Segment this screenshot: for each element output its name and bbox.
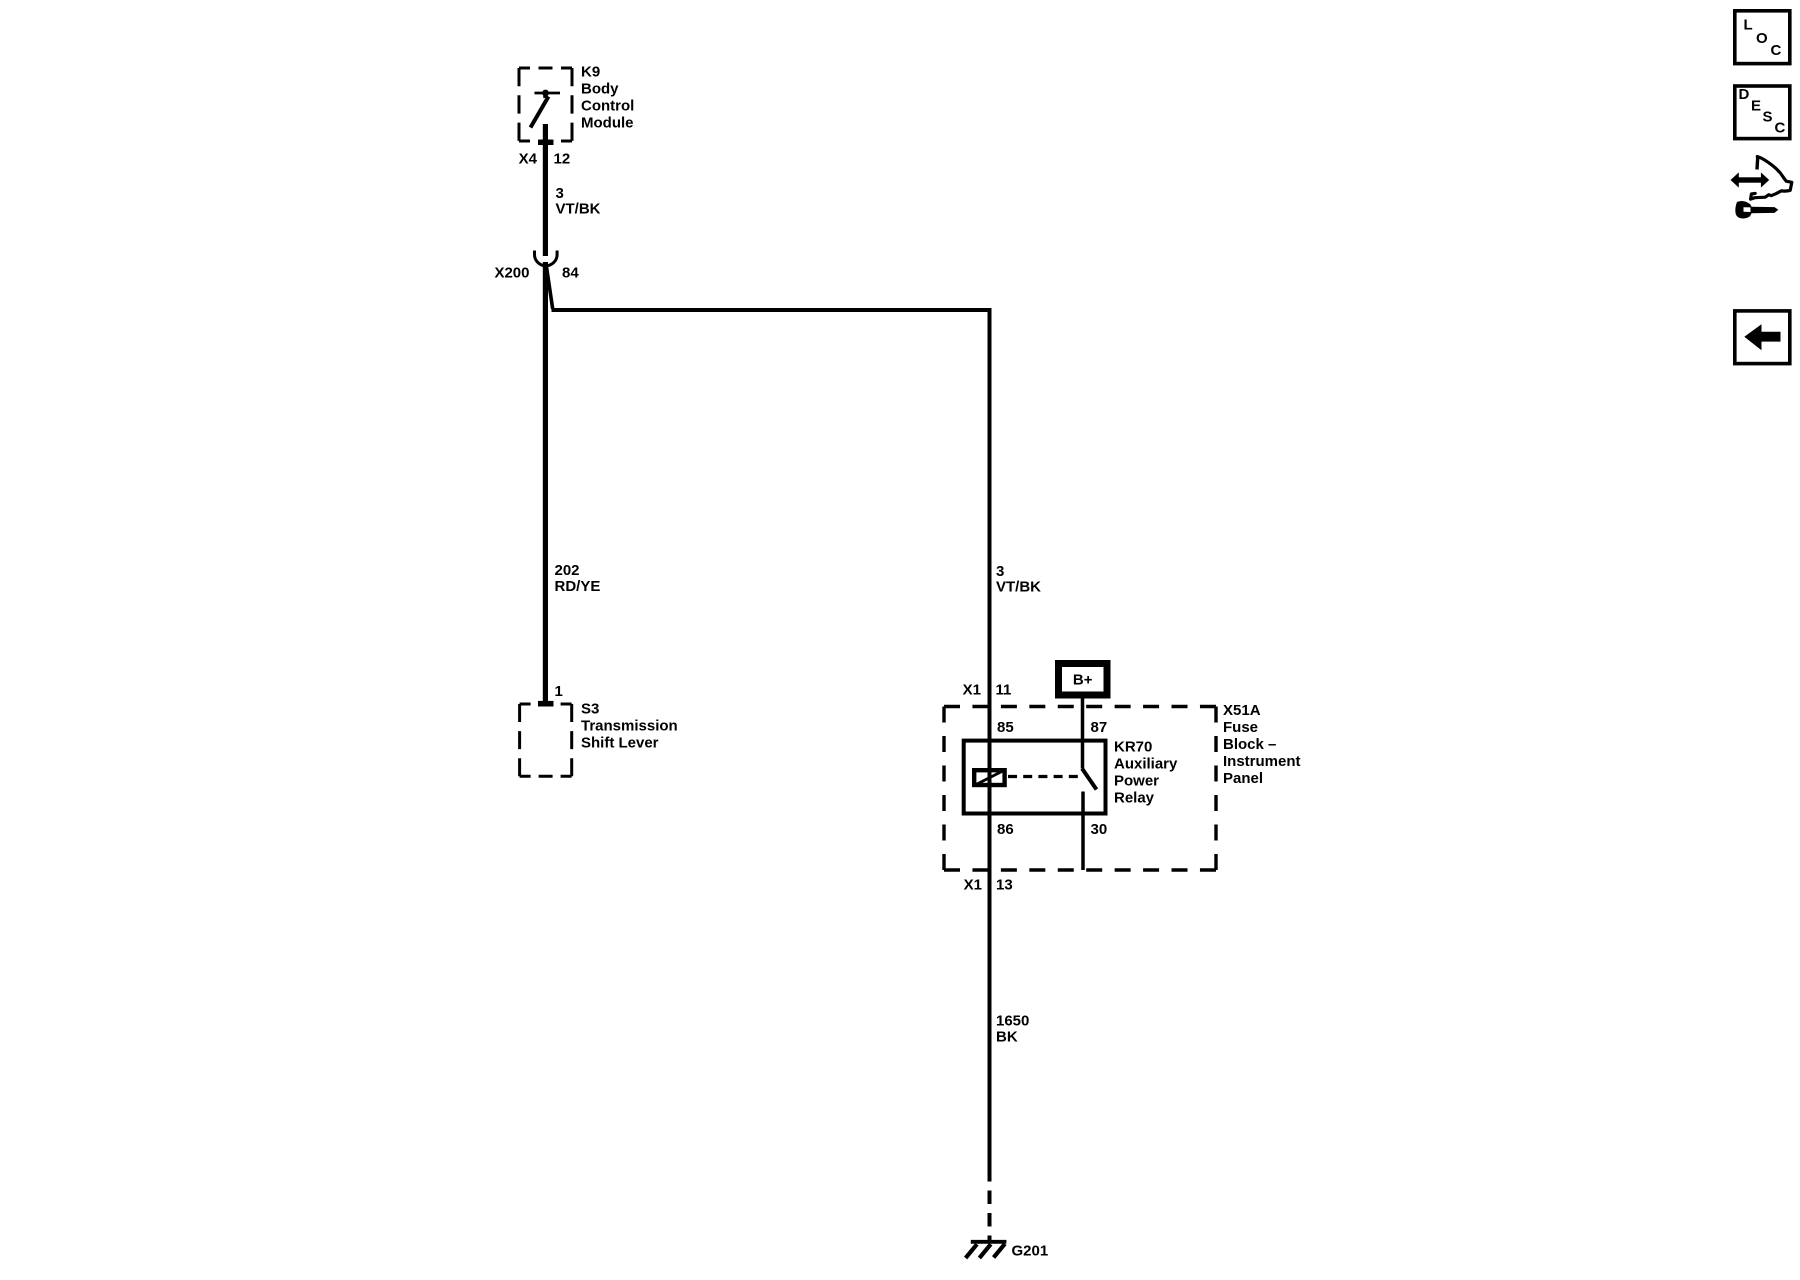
svg-text:S3: S3: [581, 701, 599, 718]
relay pin 30 wire: [1081, 792, 1085, 871]
horizontal branch wire to fuse block: [552, 308, 992, 312]
relay KR70 box: [964, 741, 1106, 814]
wire from X200 down to S3 pin 1: [543, 262, 548, 703]
svg-text:S: S: [1763, 108, 1773, 125]
svg-text:VT/BK: VT/BK: [996, 579, 1041, 596]
svg-text:E: E: [1751, 97, 1761, 114]
svg-text:84: 84: [562, 264, 579, 281]
svg-text:86: 86: [997, 821, 1014, 838]
svg-text:VT/BK: VT/BK: [556, 201, 601, 218]
dashed wire to ground: [988, 1191, 992, 1243]
connector X200 half-circle: [535, 251, 558, 266]
svg-text:X4: X4: [519, 151, 538, 168]
icon car outline with double arrow and wrench: [1731, 157, 1792, 219]
pin labels X4 12: [519, 151, 571, 168]
svg-text:Body: Body: [581, 81, 619, 98]
svg-text:C: C: [1775, 119, 1786, 136]
svg-text:X1: X1: [963, 681, 981, 698]
icon LOC box: [1735, 11, 1790, 64]
svg-text:3: 3: [996, 563, 1004, 580]
label G201: [1012, 1243, 1049, 1260]
relay coil: [974, 770, 1004, 785]
svg-text:BK: BK: [996, 1028, 1018, 1045]
svg-text:12: 12: [554, 151, 571, 168]
svg-text:Module: Module: [581, 115, 634, 132]
svg-text:30: 30: [1091, 821, 1108, 838]
branch diagonal at X200: [546, 264, 553, 310]
fuse block X51A dashed box: [944, 707, 1216, 871]
svg-text:3: 3: [556, 185, 564, 202]
wire label 202 RD/YE: [555, 562, 601, 595]
svg-text:X200: X200: [494, 264, 529, 281]
svg-text:1650: 1650: [996, 1012, 1029, 1029]
terminal at S3 pin 1: [538, 701, 554, 707]
wire label 3 VT/BK right: [996, 563, 1041, 596]
svg-text:87: 87: [1091, 719, 1108, 736]
svg-text:Shift Lever: Shift Lever: [581, 735, 659, 752]
svg-text:G201: G201: [1012, 1243, 1049, 1260]
relay pin labels 85 87 86 30: [997, 719, 1107, 838]
svg-text:O: O: [1756, 30, 1768, 47]
wire from B+ to relay pin 87: [1081, 698, 1085, 769]
svg-text:1: 1: [555, 683, 563, 700]
ground G201 symbol: [966, 1242, 1007, 1258]
pin label 1: [555, 683, 563, 700]
wire label 3 VT/BK upper: [556, 185, 601, 218]
wire from K9 pin 12 to X200: [543, 124, 548, 256]
module K9 Body Control Module dashed box: [519, 68, 572, 141]
svg-text:D: D: [1739, 86, 1750, 103]
svg-text:Block –: Block –: [1223, 736, 1276, 753]
svg-text:Panel: Panel: [1223, 770, 1263, 787]
relay actuation dashed link: [1008, 775, 1079, 778]
svg-text:Power: Power: [1114, 772, 1159, 789]
right vertical wire VT/BK: [988, 308, 992, 1182]
switch driver symbol inside K9: [531, 90, 561, 128]
svg-text:X1: X1: [964, 877, 982, 894]
svg-text:L: L: [1744, 16, 1753, 33]
wire label 1650 BK: [996, 1012, 1029, 1045]
svg-text:Relay: Relay: [1114, 789, 1155, 806]
svg-text:B+: B+: [1073, 672, 1093, 689]
svg-text:13: 13: [996, 877, 1013, 894]
svg-text:KR70: KR70: [1114, 738, 1152, 755]
svg-text:C: C: [1771, 42, 1782, 59]
B+ power symbol: [1059, 664, 1108, 696]
svg-text:85: 85: [997, 719, 1014, 736]
svg-text:202: 202: [555, 562, 580, 579]
pin labels X1 13: [964, 877, 1013, 894]
labels X200 84: [494, 264, 579, 281]
KR70 label text: [1114, 738, 1178, 806]
icon back arrow box: [1735, 311, 1790, 364]
svg-text:RD/YE: RD/YE: [555, 578, 601, 595]
svg-text:Fuse: Fuse: [1223, 719, 1258, 736]
svg-text:X51A: X51A: [1223, 702, 1261, 719]
svg-text:K9: K9: [581, 64, 600, 81]
terminal at K9 pin 12: [538, 140, 554, 145]
svg-text:Control: Control: [581, 98, 634, 115]
svg-text:11: 11: [996, 681, 1012, 698]
relay switch blade: [1082, 769, 1097, 790]
svg-text:Transmission: Transmission: [581, 718, 678, 735]
switch S3 dashed box: [520, 704, 572, 776]
pin labels X1 11: [963, 681, 1012, 698]
X51A label text: [1223, 702, 1301, 787]
icon DESC box: [1735, 86, 1790, 139]
svg-text:Instrument: Instrument: [1223, 753, 1301, 770]
K9 label text: [581, 64, 634, 132]
S3 label text: [581, 701, 678, 752]
svg-text:Auxiliary: Auxiliary: [1114, 755, 1178, 772]
